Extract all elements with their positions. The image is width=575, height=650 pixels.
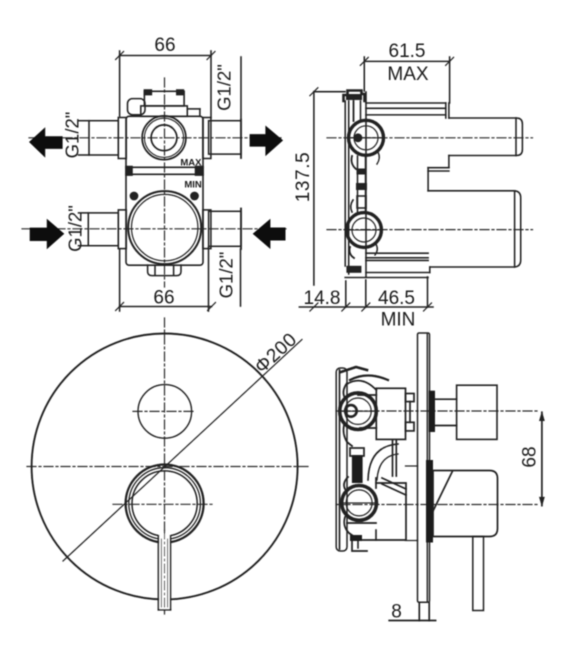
svg-text:8: 8 [391, 602, 402, 623]
svg-text:MAX: MAX [180, 158, 202, 169]
svg-text:14.8: 14.8 [304, 288, 341, 309]
svg-text:G1/2": G1/2" [216, 252, 237, 299]
svg-text:MAX: MAX [387, 64, 429, 85]
svg-text:MIN: MIN [381, 310, 416, 331]
svg-text:G1/2": G1/2" [62, 112, 83, 159]
svg-text:MIN: MIN [184, 180, 202, 191]
svg-text:61.5: 61.5 [389, 41, 426, 62]
svg-text:66: 66 [154, 35, 175, 56]
svg-text:Φ200: Φ200 [251, 329, 301, 378]
svg-text:66: 66 [153, 288, 174, 309]
svg-text:G1/2": G1/2" [214, 64, 235, 111]
svg-text:G1/2": G1/2" [65, 205, 86, 252]
svg-text:68: 68 [520, 446, 541, 467]
svg-text:46.5: 46.5 [378, 288, 415, 309]
svg-text:137.5: 137.5 [293, 152, 314, 203]
